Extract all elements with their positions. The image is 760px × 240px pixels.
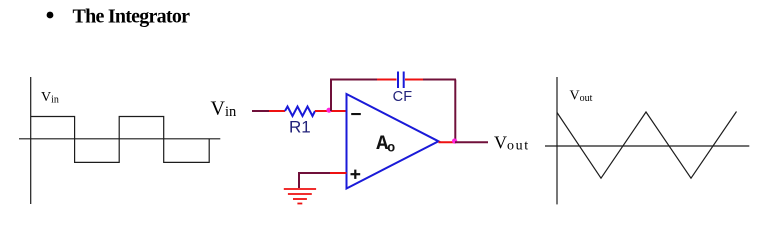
- node junction dot at inverting input: [326, 108, 331, 113]
- wire: output red from op-amp apex: [439, 141, 456, 143]
- svg-text:Vin: Vin: [211, 97, 237, 120]
- wire: feedback top rail maroon right part: [423, 79, 456, 81]
- left graph vertical axis: [30, 77, 32, 204]
- wire: feedback left vertical: [330, 80, 332, 112]
- svg-text:Ao: Ao: [376, 133, 395, 156]
- wire: red segment left of CF: [377, 79, 397, 81]
- svg-text:R1: R1: [289, 117, 311, 136]
- wire: red segment right of CF: [405, 79, 423, 81]
- op-amp U1 triangle: [347, 94, 439, 189]
- left graph horizontal axis: [19, 138, 220, 140]
- right graph Vout axes: [545, 77, 749, 204]
- op-amp minus input sign: [351, 113, 361, 115]
- node junction dot at output: [452, 138, 457, 143]
- right graph horizontal axis: [545, 145, 749, 147]
- wire: output maroon to Vout: [455, 141, 488, 143]
- wire: feedback top rail maroon left part: [330, 79, 377, 81]
- right graph vertical axis: [556, 77, 558, 204]
- right graph triangle wave: [557, 112, 737, 179]
- svg-text:CF: CF: [393, 89, 413, 105]
- wire: red from R1 to op-amp inverting input: [315, 110, 347, 112]
- wire: input red segment to R1: [269, 110, 285, 112]
- svg-text:The Integrator: The Integrator: [73, 6, 191, 28]
- wire: non-inverting input red: [330, 172, 347, 174]
- resistor R1: [285, 107, 315, 117]
- left graph Vin axes: [19, 77, 220, 204]
- wire: non-inverting input maroon: [299, 172, 330, 174]
- svg-text:Vin: Vin: [41, 90, 59, 105]
- svg-text:Vout: Vout: [570, 89, 593, 104]
- svg-text:Vout: Vout: [494, 133, 530, 154]
- capacitor CF: [398, 72, 404, 89]
- wire: ground stem: [298, 172, 300, 188]
- wire: input maroon segment: [252, 110, 269, 112]
- left graph square wave: [31, 117, 210, 163]
- op-amp plus input sign: [351, 170, 361, 179]
- wire: feedback right vertical down to output: [454, 80, 456, 143]
- bullet: [47, 12, 54, 19]
- ground: [284, 189, 316, 204]
